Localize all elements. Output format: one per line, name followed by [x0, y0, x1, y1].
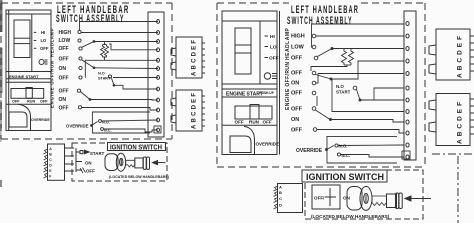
svg-text:ENGINE START: ENGINE START — [9, 74, 39, 79]
svg-text:SWITCH ASSEMBLY: SWITCH ASSEMBLY — [287, 14, 353, 27]
svg-text:ON: ON — [343, 196, 351, 201]
svg-text:A: A — [279, 185, 282, 190]
svg-text:OFF: OFF — [59, 89, 69, 95]
svg-text:LO: LO — [41, 38, 48, 43]
svg-text:ABCDEF: ABCDEF — [192, 38, 198, 76]
svg-text:START: START — [98, 77, 111, 81]
svg-text:HIGH: HIGH — [291, 34, 305, 40]
svg-text:START: START — [90, 151, 105, 156]
svg-text:N.O: N.O — [98, 72, 105, 76]
svg-text:OVERRIDE: OVERRIDE — [31, 118, 50, 122]
svg-text:ENGINE OFF/RUN: ENGINE OFF/RUN — [285, 62, 291, 110]
svg-text:LOW: LOW — [59, 38, 71, 44]
svg-text:RUN: RUN — [27, 99, 35, 103]
svg-text:HIGH: HIGH — [59, 30, 72, 36]
svg-text:ENGINE START: ENGINE START — [226, 92, 263, 98]
svg-text:LO: LO — [270, 45, 277, 51]
svg-text:HEADLAMP: HEADLAMP — [285, 28, 291, 60]
svg-text:OFF: OFF — [59, 56, 69, 62]
svg-text:N.O.: N.O. — [102, 121, 110, 125]
svg-text:ENGINE OFF/RUN: ENGINE OFF/RUN — [50, 60, 55, 108]
svg-text:ABCDEF: ABCDEF — [457, 99, 464, 144]
svg-text:N.C.: N.C. — [342, 153, 351, 158]
svg-text:OVERRIDE: OVERRIDE — [296, 148, 323, 154]
svg-text:C: C — [279, 196, 282, 201]
svg-text:(LOCATED BELOW HANDLEBARS): (LOCATED BELOW HANDLEBARS) — [109, 175, 170, 179]
svg-text:OFF: OFF — [291, 71, 303, 77]
svg-text:OFF: OFF — [291, 128, 303, 134]
svg-text:ON: ON — [291, 81, 299, 87]
svg-text:HI: HI — [270, 34, 275, 40]
svg-text:PUSH-UP: PUSH-UP — [260, 91, 275, 95]
svg-text:OFF: OFF — [235, 120, 244, 125]
svg-text:OFF: OFF — [263, 120, 272, 125]
svg-text:OFF: OFF — [86, 169, 95, 174]
svg-text:N.O.: N.O. — [339, 144, 348, 149]
svg-text:ON: ON — [59, 97, 67, 103]
svg-text:OFF: OFF — [59, 46, 69, 52]
svg-text:OFF: OFF — [40, 99, 48, 103]
svg-text:HEADLAMP: HEADLAMP — [50, 28, 55, 57]
svg-text:(LOCATED BELOW HANDLEBARS): (LOCATED BELOW HANDLEBARS) — [311, 214, 390, 219]
svg-text:SWITCH ASSEMBLY: SWITCH ASSEMBLY — [56, 12, 125, 25]
svg-text:IGNITION SWITCH: IGNITION SWITCH — [110, 144, 162, 152]
svg-text:OFF: OFF — [291, 91, 303, 97]
svg-text:ON: ON — [59, 66, 67, 72]
svg-text:IGNITION SWITCH: IGNITION SWITCH — [306, 172, 384, 182]
svg-text:OFF: OFF — [269, 56, 279, 62]
svg-text:RUN: RUN — [249, 120, 260, 125]
svg-text:ABCDEF: ABCDEF — [192, 91, 198, 129]
svg-text:OVERRIDE: OVERRIDE — [256, 142, 280, 147]
svg-text:ON: ON — [85, 161, 92, 166]
svg-text:ON: ON — [291, 117, 299, 123]
svg-text:HI: HI — [41, 30, 45, 35]
svg-text:N.C.: N.C. — [104, 129, 112, 133]
svg-text:START: START — [336, 90, 351, 95]
svg-text:OFF: OFF — [291, 56, 303, 62]
svg-text:OFF/: OFF/ — [314, 196, 325, 201]
svg-text:OFF: OFF — [291, 107, 303, 113]
svg-text:OFF: OFF — [59, 105, 69, 111]
svg-text:OVERRIDE: OVERRIDE — [66, 124, 89, 129]
svg-text:OFF: OFF — [40, 46, 49, 51]
svg-text:LOW: LOW — [291, 45, 305, 51]
svg-text:ABCDEF: ABCDEF — [457, 33, 464, 78]
svg-text:N.O: N.O — [336, 84, 344, 89]
svg-text:D: D — [279, 203, 282, 208]
svg-text:OFF: OFF — [59, 75, 69, 81]
svg-text:OFF: OFF — [12, 99, 20, 103]
svg-text:B: B — [279, 190, 282, 195]
